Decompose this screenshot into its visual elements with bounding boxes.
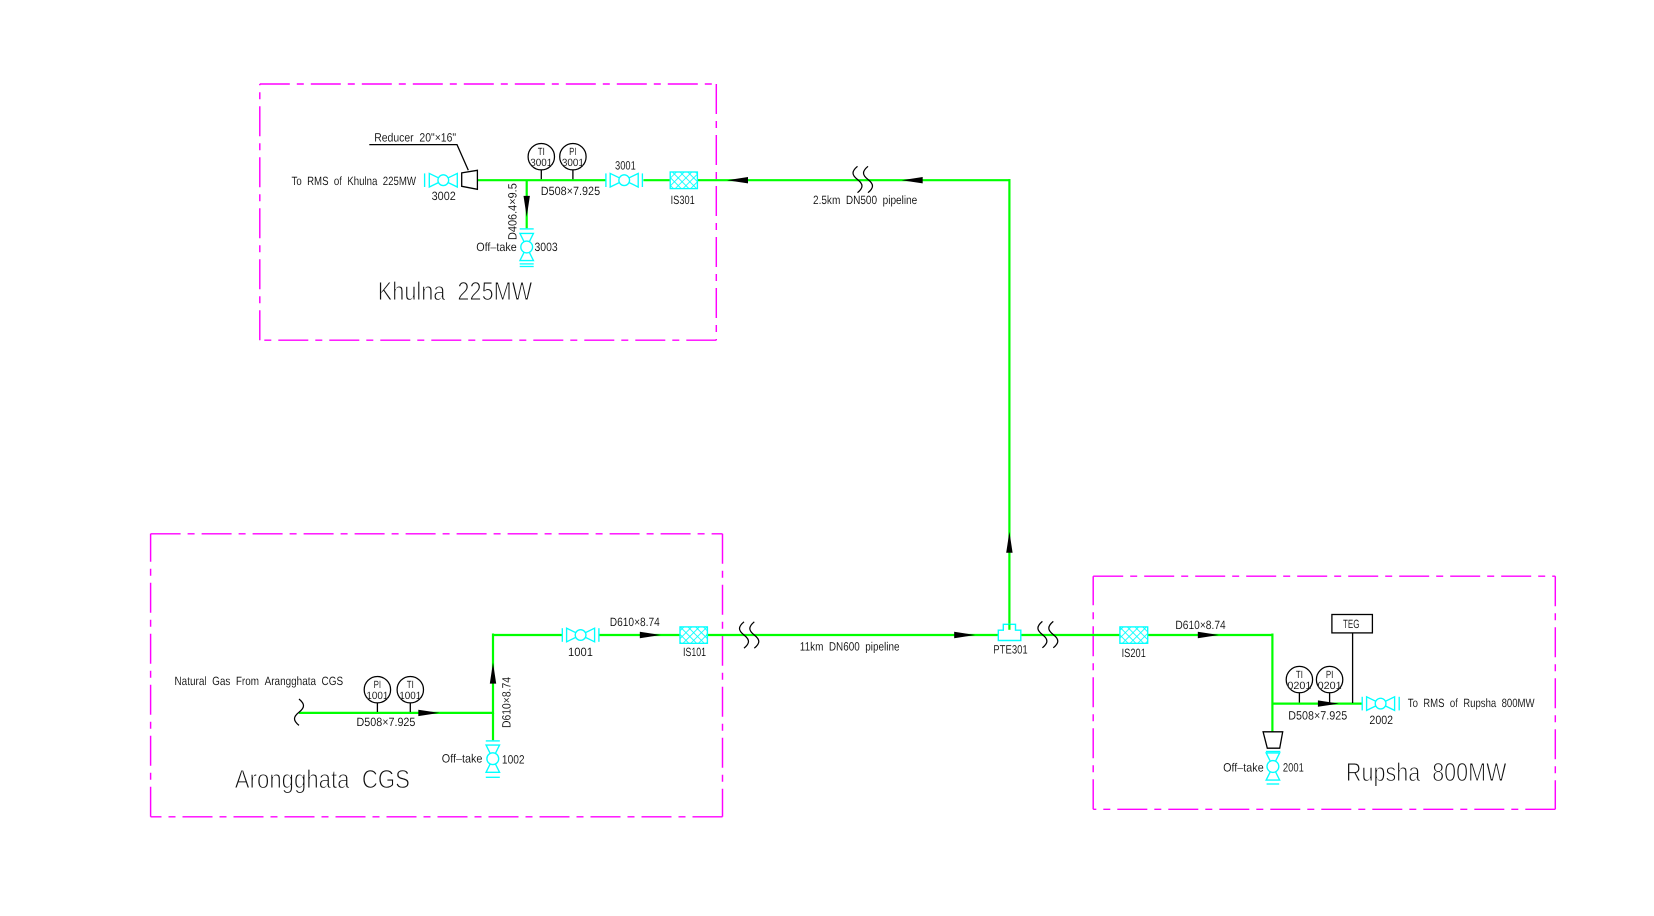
instrument PI3001 bbox=[560, 144, 586, 180]
filter IS301 bbox=[670, 172, 697, 189]
tee PTE301 bbox=[998, 624, 1021, 640]
pipe break squiggles 11km line left bbox=[740, 622, 749, 648]
svg-text:Reducer 20"×16": Reducer 20"×16" bbox=[374, 130, 456, 144]
valve 2002 bbox=[1362, 697, 1399, 711]
svg-text:TEG: TEG bbox=[1343, 617, 1360, 631]
flow arrow riser up bbox=[1006, 532, 1012, 553]
filter IS101 bbox=[680, 627, 707, 643]
flow arrow Arongghata riser up bbox=[490, 663, 496, 684]
svg-text:3001: 3001 bbox=[562, 157, 584, 169]
svg-text:Khulna 225MW: Khulna 225MW bbox=[378, 276, 533, 306]
reducer 20x16 body bbox=[462, 170, 478, 189]
wire Arongghata riser bbox=[492, 634, 494, 715]
svg-text:Arongghata CGS: Arongghata CGS bbox=[235, 764, 410, 794]
flow arrow into Khulna (outer) bbox=[727, 177, 748, 183]
svg-text:0201: 0201 bbox=[1318, 680, 1342, 692]
svg-text:D610×8.74: D610×8.74 bbox=[1175, 618, 1226, 632]
svg-text:3001: 3001 bbox=[530, 157, 552, 169]
wire Rupsha drop bbox=[1271, 634, 1273, 732]
svg-text:Off–take: Off–take bbox=[1223, 761, 1264, 775]
boundary box Khulna 225MW bbox=[260, 84, 717, 340]
TEG box bbox=[1332, 615, 1373, 704]
wire Khulna off-take stub bbox=[526, 180, 528, 228]
flow arrow after valve 1001 bbox=[640, 632, 661, 638]
svg-text:IS101: IS101 bbox=[683, 645, 706, 659]
pipe break squiggles 2.5km line bbox=[853, 166, 862, 192]
instrument TI3001 bbox=[528, 144, 554, 180]
svg-text:3001: 3001 bbox=[615, 158, 636, 172]
svg-text:Off–take: Off–take bbox=[476, 240, 517, 254]
valve 1001 bbox=[562, 628, 599, 642]
svg-text:D610×8.74: D610×8.74 bbox=[500, 677, 514, 728]
off-take valve 3003 bbox=[520, 229, 534, 267]
off-take valve 1002 bbox=[486, 741, 500, 777]
svg-text:To RMS of Rupsha 800MW: To RMS of Rupsha 800MW bbox=[1408, 696, 1535, 710]
svg-text:2001: 2001 bbox=[1283, 761, 1304, 775]
svg-text:IS301: IS301 bbox=[671, 193, 695, 207]
flow arrow Arongghata inlet right bbox=[418, 710, 439, 716]
svg-text:Off–take: Off–take bbox=[442, 751, 483, 765]
leader Reducer label bbox=[369, 145, 468, 171]
svg-text:D508×7.925: D508×7.925 bbox=[1288, 709, 1347, 723]
svg-text:IS201: IS201 bbox=[1122, 646, 1147, 660]
flow arrow after IS201 bbox=[1198, 632, 1219, 638]
svg-text:1002: 1002 bbox=[502, 753, 525, 767]
svg-text:2002: 2002 bbox=[1369, 713, 1393, 727]
svg-text:2.5km DN500 pipeline: 2.5km DN500 pipeline bbox=[813, 193, 917, 207]
off-take valve 2001 bbox=[1266, 752, 1280, 785]
svg-text:D406.4×9.5: D406.4×9.5 bbox=[506, 183, 520, 240]
instrument PI1001 bbox=[364, 677, 390, 713]
svg-text:0201: 0201 bbox=[1287, 680, 1311, 692]
instrument PI0201 bbox=[1316, 666, 1342, 702]
flow arrow into Khulna (near riser) bbox=[902, 177, 923, 183]
wire Khulna header pipe bbox=[477, 179, 1010, 181]
flow arrow before PTE301 bbox=[954, 632, 975, 638]
svg-text:11km DN600 pipeline: 11km DN600 pipeline bbox=[800, 640, 900, 654]
instrument TI0201 bbox=[1286, 666, 1312, 702]
svg-text:3002: 3002 bbox=[432, 189, 456, 203]
svg-text:Natural Gas From Arangghata: Natural Gas From Arangghata CGS bbox=[175, 674, 344, 688]
wire 11km DN600 pipeline bbox=[493, 634, 1274, 636]
wire 2.5km DN500 riser bbox=[1008, 179, 1010, 624]
svg-text:1001: 1001 bbox=[366, 690, 388, 702]
svg-text:3003: 3003 bbox=[535, 240, 558, 254]
pipe break squiggles 11km line right bbox=[1038, 621, 1047, 647]
boundary box Rupsha 800MW bbox=[1093, 576, 1555, 809]
svg-text:PTE301: PTE301 bbox=[993, 642, 1028, 656]
pipe break squiggle Arongghata inlet bbox=[295, 699, 304, 725]
svg-text:D610×8.74: D610×8.74 bbox=[610, 615, 660, 629]
svg-text:D508×7.925: D508×7.925 bbox=[357, 715, 416, 729]
svg-text:1001: 1001 bbox=[568, 645, 593, 659]
instrument TI1001 bbox=[397, 677, 423, 713]
flow arrow Khulna off-take down bbox=[524, 196, 530, 217]
boundary box Arongghata CGS bbox=[151, 534, 723, 817]
wire Rupsha RMS branch bbox=[1272, 702, 1361, 704]
wire Arongghata off-take stub bbox=[492, 713, 494, 740]
flow arrow Rupsha branch right bbox=[1318, 700, 1339, 706]
svg-text:D508×7.925: D508×7.925 bbox=[541, 184, 601, 198]
svg-text:To RMS of Khulna 225MW: To RMS of Khulna 225MW bbox=[292, 174, 417, 188]
filter IS201 bbox=[1120, 627, 1148, 643]
reducer Rupsha off-take bbox=[1263, 732, 1283, 748]
valve 3002 bbox=[425, 173, 458, 187]
svg-text:1001: 1001 bbox=[399, 690, 421, 702]
svg-text:Rupsha 800MW: Rupsha 800MW bbox=[1346, 757, 1507, 787]
wire Arongghata inlet pipe bbox=[299, 712, 493, 714]
valve 3001 bbox=[606, 173, 643, 187]
